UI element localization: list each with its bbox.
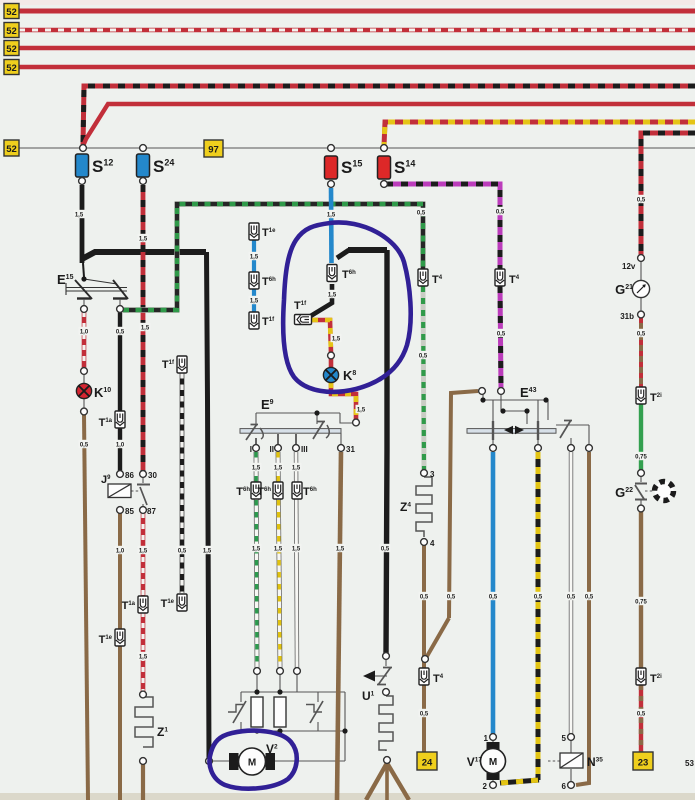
svg-text:1,5: 1,5 xyxy=(252,465,261,471)
svg-text:52: 52 xyxy=(6,7,17,18)
svg-text:30: 30 xyxy=(148,471,157,480)
svg-text:6: 6 xyxy=(562,782,567,791)
svg-text:III: III xyxy=(301,445,308,454)
svg-text:0,75: 0,75 xyxy=(635,599,647,605)
svg-text:4: 4 xyxy=(430,539,435,548)
svg-text:1,5: 1,5 xyxy=(274,546,283,552)
svg-text:1,5: 1,5 xyxy=(250,254,259,260)
svg-text:0,5: 0,5 xyxy=(116,329,125,335)
svg-text:86: 86 xyxy=(125,471,134,480)
svg-text:0,5: 0,5 xyxy=(567,594,576,600)
svg-text:52: 52 xyxy=(6,63,17,74)
svg-text:2: 2 xyxy=(483,782,488,791)
svg-text:52: 52 xyxy=(6,44,17,55)
svg-text:1,5: 1,5 xyxy=(292,465,301,471)
svg-text:0,5: 0,5 xyxy=(637,197,646,203)
svg-text:0,5: 0,5 xyxy=(496,209,505,215)
svg-text:0,5: 0,5 xyxy=(489,594,498,600)
svg-text:0,5: 0,5 xyxy=(419,353,428,359)
svg-text:0,5: 0,5 xyxy=(417,210,426,216)
svg-text:24: 24 xyxy=(422,758,433,769)
svg-text:1,5: 1,5 xyxy=(336,546,345,552)
svg-text:1,5: 1,5 xyxy=(332,336,341,342)
svg-text:1,0: 1,0 xyxy=(116,442,125,448)
svg-text:0,5: 0,5 xyxy=(420,711,429,717)
svg-text:3: 3 xyxy=(430,470,435,479)
svg-text:5: 5 xyxy=(562,734,567,743)
svg-text:0,5: 0,5 xyxy=(497,331,506,337)
svg-text:87: 87 xyxy=(147,507,156,516)
svg-text:0,5: 0,5 xyxy=(381,546,390,552)
svg-text:85: 85 xyxy=(125,507,134,516)
svg-text:II: II xyxy=(270,445,274,454)
svg-text:1,5: 1,5 xyxy=(327,212,336,218)
svg-text:1,5: 1,5 xyxy=(357,407,366,413)
svg-text:0,5: 0,5 xyxy=(420,594,429,600)
svg-text:1,5: 1,5 xyxy=(141,325,150,331)
svg-text:M: M xyxy=(248,758,256,769)
svg-text:0,5: 0,5 xyxy=(585,594,594,600)
svg-text:1,0: 1,0 xyxy=(116,548,125,554)
svg-text:0,5: 0,5 xyxy=(637,331,646,337)
svg-text:31: 31 xyxy=(346,445,355,454)
svg-text:0,5: 0,5 xyxy=(178,548,187,554)
svg-text:1,5: 1,5 xyxy=(139,548,148,554)
svg-text:1,5: 1,5 xyxy=(203,548,212,554)
svg-text:1,5: 1,5 xyxy=(328,292,337,298)
svg-text:12v: 12v xyxy=(622,262,636,271)
svg-text:97: 97 xyxy=(208,145,219,156)
svg-text:0,75: 0,75 xyxy=(635,454,647,460)
svg-text:1,5: 1,5 xyxy=(75,212,84,218)
svg-text:M: M xyxy=(489,757,497,768)
svg-text:1,5: 1,5 xyxy=(250,298,259,304)
svg-text:1,5: 1,5 xyxy=(292,546,301,552)
svg-text:1,0: 1,0 xyxy=(80,329,89,335)
svg-text:1,5: 1,5 xyxy=(139,236,148,242)
svg-text:0,5: 0,5 xyxy=(447,594,456,600)
svg-text:1,5: 1,5 xyxy=(139,654,148,660)
svg-text:1: 1 xyxy=(484,734,489,743)
svg-text:0,5: 0,5 xyxy=(534,594,543,600)
svg-text:52: 52 xyxy=(6,144,17,155)
svg-text:1,5: 1,5 xyxy=(252,546,261,552)
svg-text:53: 53 xyxy=(685,759,694,768)
svg-text:I: I xyxy=(250,445,252,454)
svg-text:52: 52 xyxy=(6,26,17,37)
svg-text:31b: 31b xyxy=(620,312,634,321)
svg-text:0,5: 0,5 xyxy=(80,442,89,448)
svg-text:1,5: 1,5 xyxy=(274,465,283,471)
svg-text:23: 23 xyxy=(638,758,649,769)
svg-text:0,5: 0,5 xyxy=(637,711,646,717)
